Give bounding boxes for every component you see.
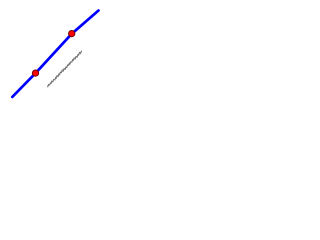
- line f through points A and B (blue polyline): [12, 11, 98, 97]
- point B (red): [69, 30, 75, 36]
- hatched segment decoration (gray ticks): [48, 51, 82, 88]
- background: [0, 0, 109, 109]
- point A (red): [32, 70, 38, 76]
